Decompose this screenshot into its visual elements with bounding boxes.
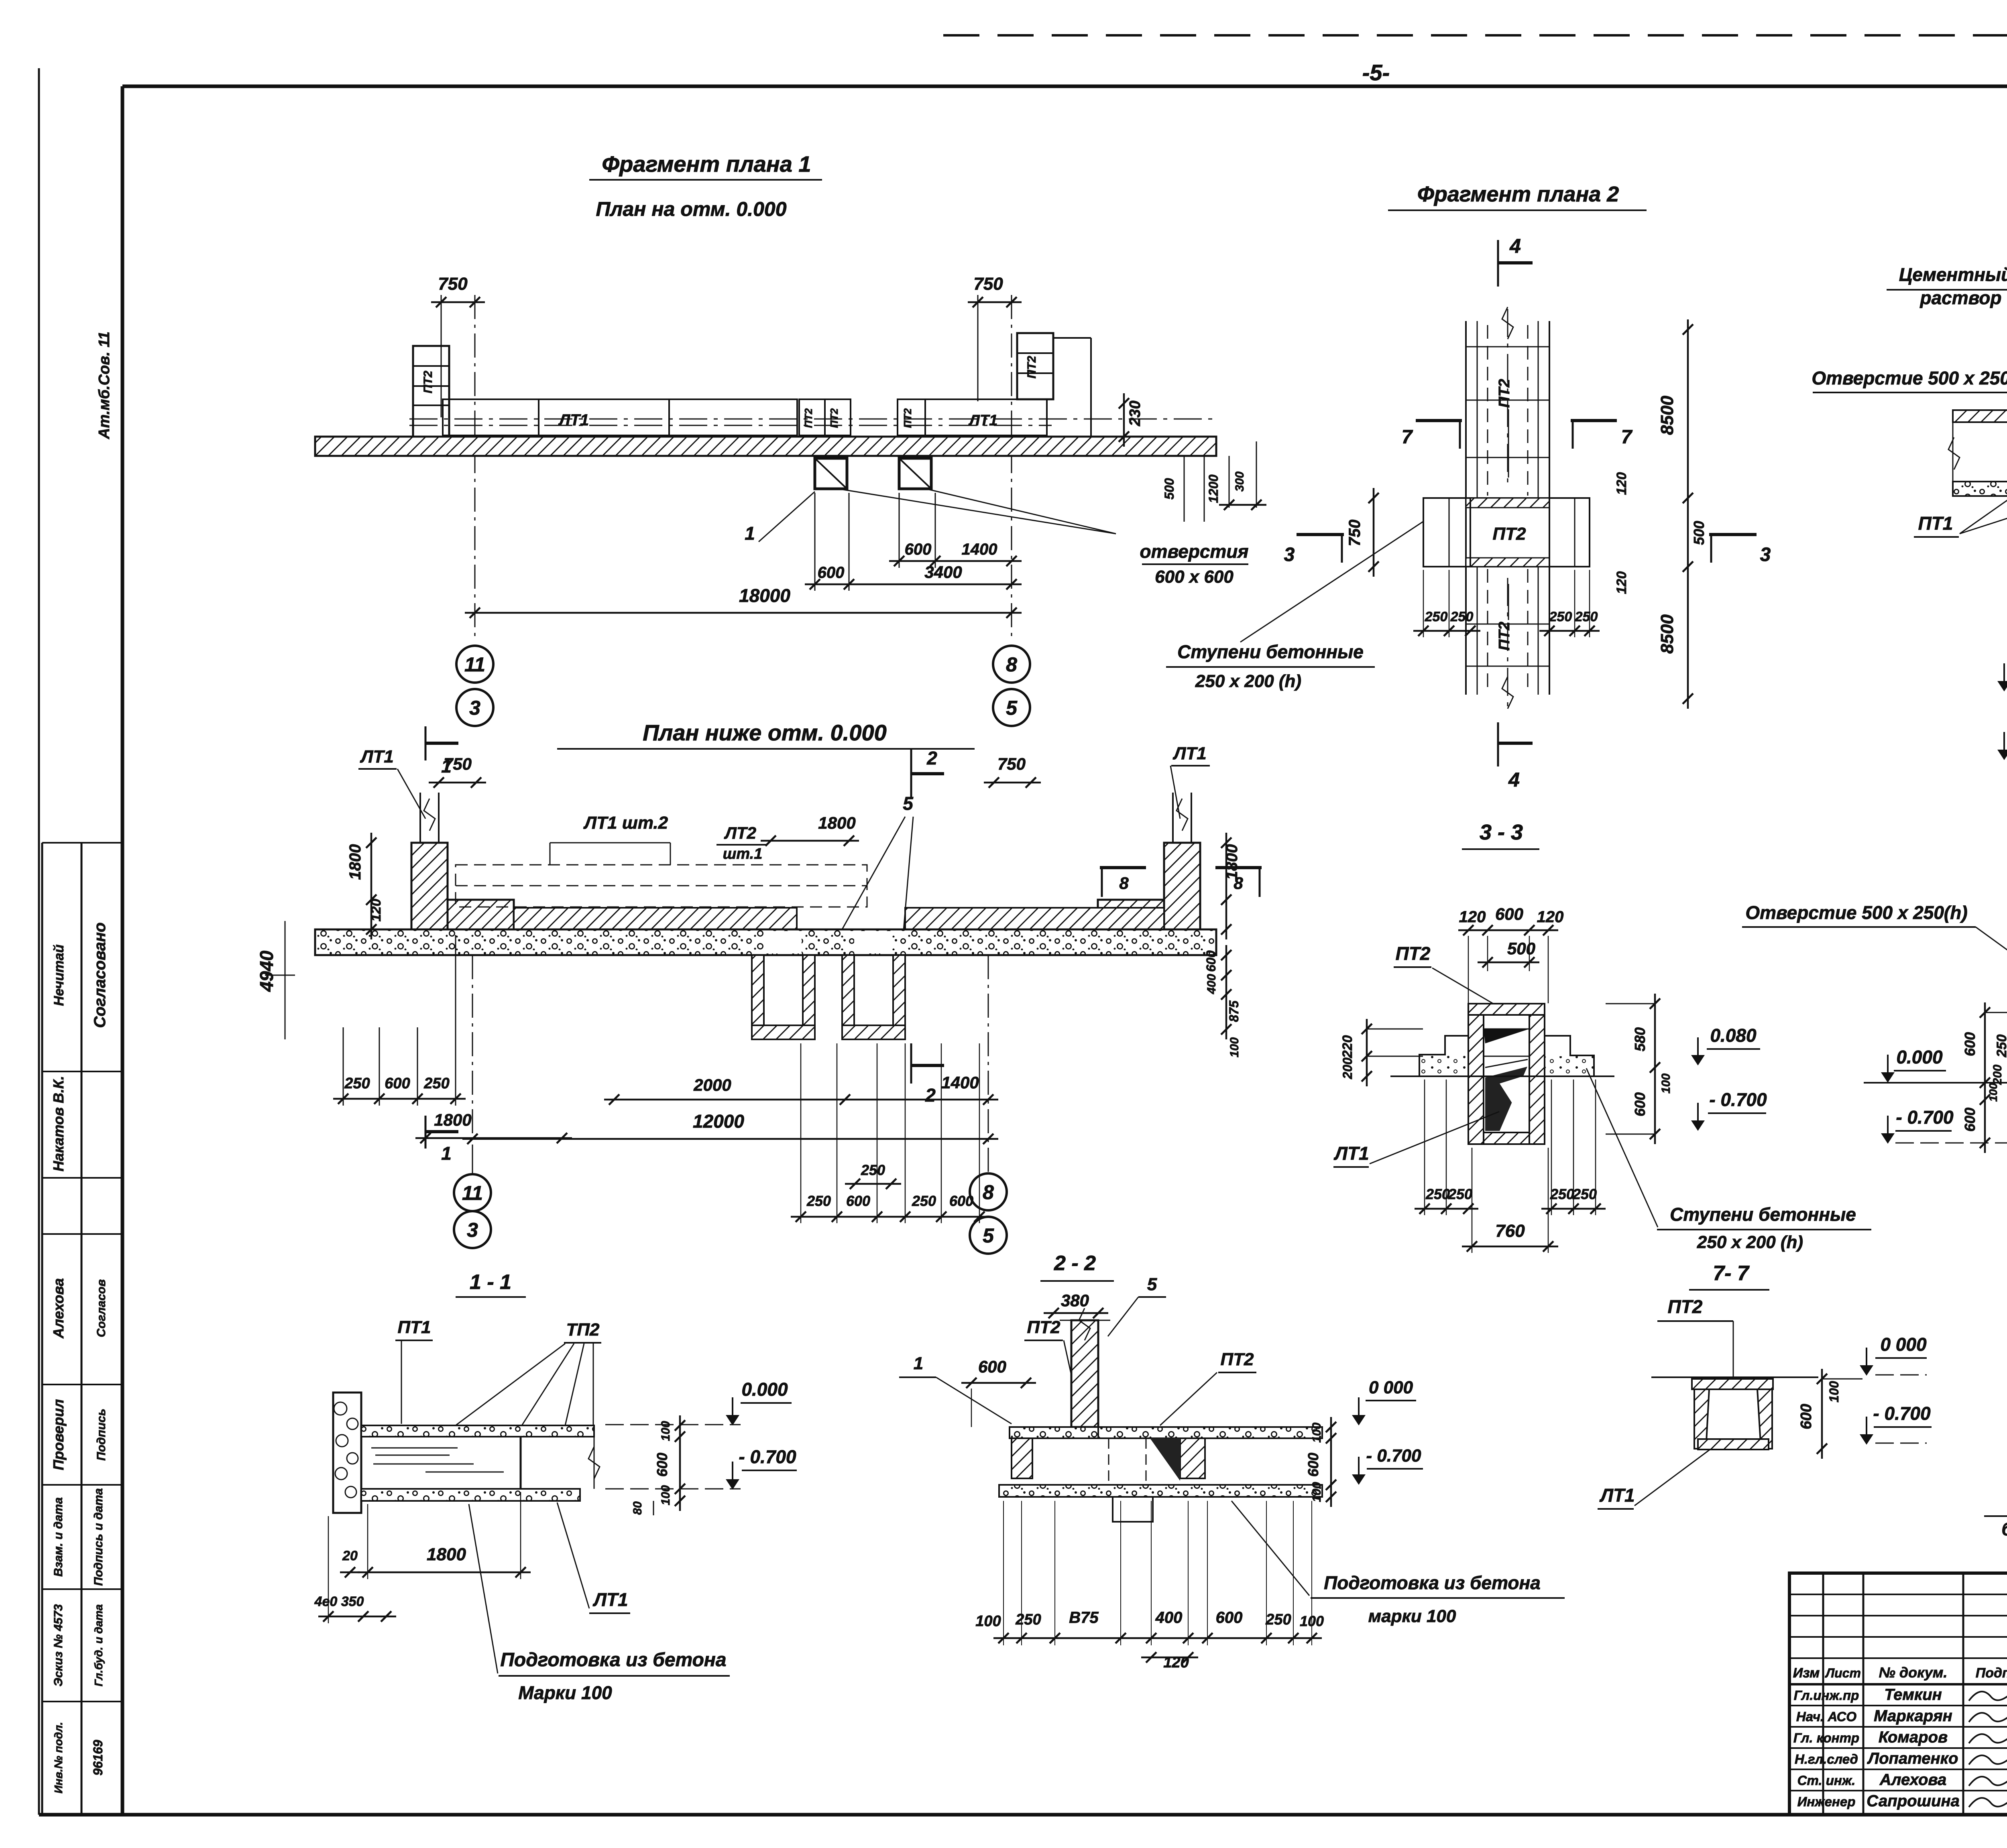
svg-text:Инв.№ подл.: Инв.№ подл. bbox=[52, 1722, 65, 1793]
svg-text:120: 120 bbox=[1537, 908, 1564, 926]
svg-text:ЛТ1: ЛТ1 bbox=[558, 411, 589, 429]
svg-text:600: 600 bbox=[1305, 1453, 1321, 1477]
svg-text:100: 100 bbox=[1228, 1037, 1241, 1057]
long panel LT1 bbox=[443, 399, 797, 435]
svg-text:Отверстие 500 х 250(h): Отверстие 500 х 250(h) bbox=[1812, 368, 2007, 388]
svg-text:Сапрошина: Сапрошина bbox=[1867, 1792, 1960, 1810]
dashed panel rect above band bbox=[456, 865, 867, 907]
right wall L-shape bbox=[1164, 843, 1200, 929]
right dim line 8500/500 bbox=[1687, 319, 1689, 709]
inner frame top bbox=[122, 85, 2007, 88]
svg-text:ПТ1: ПТ1 bbox=[1918, 513, 1953, 534]
svg-text:250: 250 bbox=[1550, 1186, 1574, 1202]
svg-text:220: 220 bbox=[1340, 1035, 1355, 1059]
title block left table verticals bbox=[1822, 1573, 1824, 1815]
svg-text:120: 120 bbox=[1459, 908, 1486, 926]
slab body bbox=[1953, 481, 2007, 482]
svg-text:ТП2: ТП2 bbox=[566, 1320, 600, 1340]
svg-text:0 000: 0 000 bbox=[1369, 1378, 1413, 1397]
svg-text:ЛТ1: ЛТ1 bbox=[1599, 1485, 1635, 1506]
box bottom cap bbox=[1484, 1132, 1529, 1144]
svg-text:250: 250 bbox=[1572, 1186, 1597, 1202]
sheet outer cut line top (dashed) bbox=[943, 34, 2007, 37]
right panel LT1 bbox=[925, 399, 1047, 435]
sheet outer cut line bottom bbox=[39, 1813, 2007, 1817]
svg-text:250: 250 bbox=[1015, 1611, 1041, 1628]
section mark 8 left bbox=[1100, 866, 1146, 869]
left wall L-shape bbox=[411, 843, 448, 929]
trough right wall bbox=[1757, 1389, 1772, 1449]
svg-text:марки 100: марки 100 bbox=[1368, 1606, 1456, 1626]
svg-text:600: 600 bbox=[818, 564, 845, 581]
right vert dims (2-2) bbox=[1330, 1417, 1332, 1507]
svg-text:18000: 18000 bbox=[739, 585, 790, 606]
center band PT2 bbox=[1423, 497, 1590, 499]
svg-text:8: 8 bbox=[983, 1181, 994, 1204]
svg-text:Отверстие 500 х 250(h): Отверстие 500 х 250(h) bbox=[1745, 902, 1967, 923]
svg-text:11: 11 bbox=[462, 1182, 483, 1204]
svg-text:1: 1 bbox=[745, 523, 755, 544]
svg-text:Накатов В.К.: Накатов В.К. bbox=[50, 1076, 67, 1171]
svg-text:Проверил: Проверил bbox=[50, 1399, 67, 1470]
svg-text:2: 2 bbox=[925, 1085, 936, 1106]
svg-text:0 000: 0 000 bbox=[1880, 1334, 1927, 1355]
svg-text:500: 500 bbox=[1691, 521, 1707, 545]
svg-text:500: 500 bbox=[1507, 939, 1535, 958]
svg-text:600: 600 bbox=[846, 1193, 870, 1209]
svg-text:4е0 350: 4е0 350 bbox=[314, 1594, 364, 1609]
svg-text:Алехова: Алехова bbox=[1879, 1771, 1947, 1789]
svg-text:380: 380 bbox=[1061, 1291, 1089, 1310]
ground line (7-7) bbox=[1651, 1376, 1818, 1378]
center dash axis vertical bbox=[1507, 309, 1508, 488]
svg-text:3 - 3: 3 - 3 bbox=[1480, 820, 1523, 844]
svg-text:шт.1: шт.1 bbox=[723, 846, 763, 862]
right step block bbox=[1545, 1036, 1594, 1076]
svg-text:- 0.700: - 0.700 bbox=[1896, 1107, 1954, 1128]
section mark 2 bottom bbox=[910, 1043, 912, 1084]
svg-text:5: 5 bbox=[1006, 697, 1018, 719]
left margin approval box bbox=[42, 842, 122, 844]
title block revision rows bbox=[1789, 1594, 2007, 1595]
svg-text:600 х 600: 600 х 600 bbox=[1155, 567, 1234, 587]
box left wall bbox=[1468, 1015, 1484, 1144]
section mark 4 bottom bbox=[1497, 722, 1499, 766]
right edge small dims bbox=[1184, 456, 1185, 522]
svg-text:Фрагмент плана 1: Фрагмент плана 1 bbox=[602, 151, 811, 177]
svg-text:Подготовка из бетона: Подготовка из бетона bbox=[1324, 1572, 1541, 1593]
right flank rect bbox=[1549, 498, 1590, 567]
svg-text:200: 200 bbox=[1991, 1065, 2004, 1085]
inner frame left bbox=[121, 86, 124, 1815]
svg-text:7- 7: 7- 7 bbox=[1713, 1262, 1750, 1285]
slab top hatch strip bbox=[1953, 410, 2007, 422]
slab bottom strip (2-2) bbox=[999, 1485, 1322, 1497]
svg-text:600: 600 bbox=[905, 541, 932, 558]
svg-text:600: 600 bbox=[1962, 1032, 1978, 1056]
svg-text:100: 100 bbox=[1827, 1381, 1841, 1403]
trench vertical walls bbox=[1465, 321, 1467, 695]
svg-text:3400: 3400 bbox=[924, 563, 962, 581]
svg-text:ПТ2: ПТ2 bbox=[1221, 1350, 1254, 1369]
svg-text:500: 500 bbox=[1162, 478, 1177, 500]
left rubble wall (1-1) bbox=[333, 1393, 361, 1513]
svg-text:4: 4 bbox=[1509, 235, 1521, 257]
svg-text:250: 250 bbox=[1994, 1035, 2007, 1058]
svg-text:80: 80 bbox=[631, 1501, 644, 1515]
svg-text:ЛТ1: ЛТ1 bbox=[968, 412, 997, 429]
left stub (2-2) bbox=[1012, 1438, 1032, 1478]
section mark 4 top bbox=[1497, 240, 1499, 287]
column above (2-2) bbox=[1071, 1320, 1098, 1427]
slab bottom stipple (1-1) bbox=[361, 1489, 580, 1501]
svg-text:Эскиз № 4573: Эскиз № 4573 bbox=[52, 1604, 65, 1686]
section mark 3 far left bbox=[1297, 533, 1344, 536]
svg-text:750: 750 bbox=[997, 754, 1026, 773]
svg-text:ЛТ1: ЛТ1 bbox=[1172, 744, 1207, 763]
dark wedge right of column (2-2) bbox=[1150, 1438, 1180, 1481]
svg-text:750: 750 bbox=[438, 274, 468, 294]
slab body dashed column (2-2) bbox=[1108, 1438, 1109, 1485]
svg-text:8500: 8500 bbox=[1657, 614, 1677, 654]
dims right (7-7) bbox=[1821, 1369, 1823, 1459]
svg-text:1 - 1: 1 - 1 bbox=[470, 1271, 511, 1294]
svg-text:ПТ2: ПТ2 bbox=[1496, 622, 1513, 651]
svg-text:3: 3 bbox=[469, 697, 480, 719]
svg-text:бетона марки 100: бетона марки 100 bbox=[2001, 1519, 2007, 1539]
svg-text:ЛТ1: ЛТ1 bbox=[360, 747, 394, 766]
svg-text:Маркарян: Маркарян bbox=[1874, 1707, 1952, 1725]
name rows bbox=[1789, 1705, 2007, 1706]
pit below (2-2) bbox=[1113, 1497, 1153, 1522]
svg-text:11: 11 bbox=[464, 653, 485, 676]
svg-text:120: 120 bbox=[1614, 571, 1629, 594]
svg-text:Гл.инж.пр: Гл.инж.пр bbox=[1794, 1688, 1859, 1703]
svg-text:1: 1 bbox=[914, 1354, 923, 1373]
svg-text:250 х 200 (h): 250 х 200 (h) bbox=[1697, 1232, 1803, 1252]
left flank rect bbox=[1423, 498, 1470, 567]
svg-text:Подготовка из бетона: Подготовка из бетона bbox=[500, 1649, 726, 1671]
svg-text:Взам. и дата: Взам. и дата bbox=[52, 1497, 65, 1577]
svg-text:ЛТ1: ЛТ1 bbox=[1333, 1143, 1369, 1164]
section mark 7 right bbox=[1571, 419, 1617, 422]
svg-text:600: 600 bbox=[654, 1453, 670, 1477]
svg-text:600: 600 bbox=[385, 1075, 410, 1092]
svg-text:0.000: 0.000 bbox=[1896, 1047, 1943, 1067]
svg-text:1800: 1800 bbox=[818, 813, 855, 832]
svg-text:Н.гл.след: Н.гл.след bbox=[1795, 1752, 1858, 1767]
svg-text:8: 8 bbox=[1006, 653, 1017, 676]
axis line left (11/3) bbox=[474, 295, 476, 640]
right dims bbox=[1654, 994, 1656, 1144]
box top cap bbox=[1468, 1004, 1545, 1015]
right hatch block (2-2) bbox=[1180, 1438, 1205, 1478]
svg-text:600: 600 bbox=[1962, 1108, 1978, 1132]
grid circles 8/5 (plan below) bbox=[970, 1173, 1007, 1210]
svg-text:875: 875 bbox=[1227, 1000, 1241, 1022]
svg-text:100: 100 bbox=[1310, 1423, 1323, 1443]
slab top strip (2-2) bbox=[1010, 1427, 1106, 1438]
svg-text:Лист: Лист bbox=[1825, 1666, 1861, 1680]
svg-text:20: 20 bbox=[342, 1548, 358, 1563]
svg-text:Ступени бетонные: Ступени бетонные bbox=[1177, 641, 1364, 662]
svg-text:750: 750 bbox=[1346, 520, 1364, 547]
svg-text:250: 250 bbox=[1575, 609, 1598, 624]
svg-text:- 0.700: - 0.700 bbox=[1709, 1089, 1767, 1110]
section mark 7 left bbox=[1416, 419, 1462, 422]
trough bottom strip bbox=[1698, 1439, 1769, 1450]
svg-text:250: 250 bbox=[423, 1075, 449, 1092]
svg-text:Марки 100: Марки 100 bbox=[518, 1682, 612, 1703]
slab bottom stipple strip bbox=[1953, 482, 2007, 496]
leaders to otverstiya text bbox=[843, 490, 1116, 534]
svg-text:Алехова: Алехова bbox=[50, 1278, 67, 1339]
svg-text:Подпись и дата: Подпись и дата bbox=[92, 1488, 105, 1586]
svg-text:230: 230 bbox=[1127, 401, 1144, 426]
svg-text:100: 100 bbox=[659, 1421, 672, 1441]
svg-text:- 0.700: - 0.700 bbox=[739, 1446, 796, 1467]
svg-text:Нач. АСО: Нач. АСО bbox=[1796, 1709, 1857, 1724]
svg-text:ПТ2: ПТ2 bbox=[1025, 356, 1038, 378]
svg-text:100: 100 bbox=[659, 1485, 672, 1505]
ground line bbox=[1390, 1075, 1614, 1077]
inner window with wedge bbox=[1484, 1029, 1529, 1056]
svg-text:Гл. контр: Гл. контр bbox=[1793, 1730, 1859, 1745]
svg-text:Ступени бетонные: Ступени бетонные bbox=[1670, 1204, 1856, 1225]
svg-text:ЛТ1 шт.2: ЛТ1 шт.2 bbox=[583, 813, 668, 833]
svg-text:3: 3 bbox=[1760, 544, 1771, 565]
wall strip in plan (hatched) bbox=[315, 437, 1216, 456]
svg-text:250: 250 bbox=[1450, 609, 1474, 624]
svg-text:580: 580 bbox=[1632, 1027, 1648, 1051]
svg-text:-5-: -5- bbox=[1362, 60, 1390, 85]
svg-text:ПТ2: ПТ2 bbox=[1668, 1296, 1703, 1317]
svg-text:100: 100 bbox=[1659, 1073, 1673, 1094]
left margin bottom stamp bbox=[42, 1588, 122, 1590]
svg-text:200: 200 bbox=[1340, 1057, 1355, 1080]
svg-text:ПТ2: ПТ2 bbox=[421, 370, 435, 393]
svg-text:ПТ2: ПТ2 bbox=[902, 408, 914, 428]
svg-text:760: 760 bbox=[1495, 1221, 1525, 1241]
svg-text:ЛТ2: ЛТ2 bbox=[724, 823, 756, 842]
level lines (6-6) bbox=[1864, 1082, 2007, 1084]
svg-text:ПТ2: ПТ2 bbox=[1027, 1317, 1061, 1337]
svg-text:600: 600 bbox=[1798, 1404, 1815, 1429]
right small PT2 box bbox=[898, 399, 925, 435]
svg-text:4: 4 bbox=[1508, 768, 1520, 791]
svg-text:2000: 2000 bbox=[693, 1075, 731, 1094]
svg-text:600: 600 bbox=[978, 1357, 1006, 1376]
grid circles 11/3 left bbox=[456, 646, 493, 683]
svg-text:250: 250 bbox=[806, 1193, 831, 1209]
svg-text:1400: 1400 bbox=[941, 1073, 979, 1092]
svg-text:1200: 1200 bbox=[1206, 474, 1221, 503]
svg-text:Инженер: Инженер bbox=[1797, 1794, 1856, 1809]
trough left wall bbox=[1694, 1389, 1709, 1449]
svg-text:1800: 1800 bbox=[427, 1545, 466, 1564]
svg-text:Нечитай: Нечитай bbox=[51, 944, 67, 1006]
svg-text:250 х 200 (h): 250 х 200 (h) bbox=[1195, 671, 1301, 691]
svg-text:Цементный: Цементный bbox=[1899, 264, 2007, 285]
svg-text:250: 250 bbox=[861, 1162, 885, 1178]
svg-text:600: 600 bbox=[1216, 1609, 1243, 1626]
svg-text:1800: 1800 bbox=[434, 1110, 471, 1129]
svg-text:1800: 1800 bbox=[346, 844, 364, 880]
svg-text:ПТ2: ПТ2 bbox=[1493, 524, 1527, 544]
right vert dims (1-1) bbox=[679, 1415, 681, 1511]
svg-text:2 - 2: 2 - 2 bbox=[1054, 1252, 1096, 1275]
box right wall bbox=[1529, 1015, 1545, 1144]
svg-text:1: 1 bbox=[441, 1143, 452, 1164]
pit openings gaps bbox=[764, 931, 802, 953]
svg-text:400: 400 bbox=[1205, 974, 1218, 994]
svg-text:ПТ2: ПТ2 bbox=[802, 408, 814, 428]
right top PT2 column bbox=[1017, 333, 1053, 399]
svg-text:8: 8 bbox=[1119, 874, 1129, 892]
svg-text:ПТ1: ПТ1 bbox=[398, 1317, 431, 1337]
svg-text:План ниже отм. 0.000: План ниже отм. 0.000 bbox=[643, 720, 887, 745]
svg-text:250: 250 bbox=[1549, 609, 1572, 624]
inner lower dark fill bbox=[1485, 1067, 1527, 1131]
svg-text:- 0.700: - 0.700 bbox=[1366, 1446, 1422, 1466]
svg-text:Изм: Изм bbox=[1793, 1665, 1820, 1681]
svg-text:750: 750 bbox=[973, 274, 1003, 294]
pit 1 U-shape bbox=[752, 955, 764, 1039]
svg-text:100: 100 bbox=[1310, 1482, 1323, 1502]
svg-text:300: 300 bbox=[1233, 472, 1246, 492]
svg-text:7: 7 bbox=[1402, 427, 1413, 448]
svg-text:100: 100 bbox=[1987, 1083, 1999, 1102]
section mark 1 bottom bbox=[425, 1116, 427, 1149]
svg-text:250: 250 bbox=[912, 1193, 936, 1209]
svg-text:400: 400 bbox=[1155, 1609, 1183, 1626]
svg-text:Гл.буд. и дата: Гл.буд. и дата bbox=[92, 1604, 105, 1687]
pit 2 U-shape bbox=[842, 955, 854, 1039]
svg-text:600: 600 bbox=[1632, 1092, 1648, 1116]
trough top strip bbox=[1692, 1379, 1773, 1389]
svg-text:Комаров: Комаров bbox=[1879, 1728, 1948, 1746]
section mark 2 top bbox=[910, 750, 912, 798]
svg-text:ПТ2: ПТ2 bbox=[1396, 943, 1431, 964]
dash-dot panel line above strip bbox=[409, 419, 1216, 420]
svg-text:ЛТ1: ЛТ1 bbox=[592, 1589, 628, 1610]
slab body (1-1) bbox=[361, 1437, 362, 1489]
section mark 1 top bbox=[425, 726, 427, 760]
svg-text:Согласов: Согласов bbox=[95, 1279, 108, 1337]
svg-text:250: 250 bbox=[1425, 609, 1448, 624]
svg-text:8500: 8500 bbox=[1657, 396, 1677, 435]
svg-text:Подп.: Подп. bbox=[1976, 1665, 2007, 1681]
svg-text:250: 250 bbox=[1448, 1186, 1472, 1202]
right break (1-1) bbox=[588, 1447, 600, 1479]
svg-text:750: 750 bbox=[444, 754, 472, 773]
svg-text:Фрагмент плана 2: Фрагмент плана 2 bbox=[1417, 182, 1619, 206]
svg-text:7: 7 bbox=[1621, 427, 1633, 448]
svg-text:5: 5 bbox=[903, 793, 914, 814]
svg-text:100: 100 bbox=[975, 1613, 1001, 1630]
svg-text:12000: 12000 bbox=[693, 1111, 744, 1132]
wall stub lines above left wall bbox=[419, 793, 421, 843]
svg-text:3: 3 bbox=[467, 1219, 478, 1241]
sheet outer cut line left bbox=[38, 68, 40, 1815]
svg-text:отверстия: отверстия bbox=[1140, 541, 1249, 562]
svg-text:4940: 4940 bbox=[256, 950, 277, 992]
svg-text:250: 250 bbox=[344, 1075, 370, 1092]
svg-text:Подпись: Подпись bbox=[95, 1409, 108, 1461]
opening squares 600x600 bbox=[815, 458, 847, 489]
svg-text:ПТ2: ПТ2 bbox=[1496, 379, 1513, 408]
svg-text:План на отм. 0.000: План на отм. 0.000 bbox=[596, 198, 786, 220]
slab top hatch strip (1-1) bbox=[361, 1425, 594, 1437]
svg-text:№ докум.: № докум. bbox=[1879, 1664, 1948, 1681]
svg-text:120: 120 bbox=[1614, 472, 1629, 495]
middle wall hatched band bbox=[514, 908, 797, 929]
svg-text:- 0.700: - 0.700 bbox=[1873, 1403, 1931, 1424]
trench rungs bbox=[1466, 346, 1549, 348]
svg-text:1400: 1400 bbox=[962, 541, 997, 558]
svg-text:Ст. инж.: Ст. инж. bbox=[1797, 1773, 1856, 1788]
svg-text:96169: 96169 bbox=[91, 1740, 105, 1775]
svg-text:Темкин: Темкин bbox=[1884, 1686, 1942, 1704]
section mark 8 right bbox=[1215, 866, 1262, 869]
title block outer bbox=[1789, 1573, 2007, 1815]
left PT2 column block bbox=[413, 346, 449, 437]
left step block bbox=[1419, 1036, 1468, 1076]
svg-text:0.000: 0.000 bbox=[741, 1379, 788, 1400]
svg-text:600: 600 bbox=[1204, 950, 1218, 972]
svg-text:Согласовано: Согласовано bbox=[91, 923, 109, 1028]
svg-text:250: 250 bbox=[1265, 1611, 1291, 1628]
svg-text:0.080: 0.080 bbox=[1710, 1025, 1757, 1046]
concrete footing strip bbox=[315, 929, 1216, 955]
svg-text:5: 5 bbox=[1147, 1275, 1157, 1294]
svg-text:600: 600 bbox=[1495, 905, 1523, 923]
svg-text:ПТ2: ПТ2 bbox=[828, 408, 840, 428]
grid circles 11/3 (plan below) bbox=[472, 1145, 473, 1174]
grid circles 8/5 right bbox=[993, 646, 1030, 683]
two narrow PT2 boxes bbox=[799, 399, 825, 435]
svg-text:3: 3 bbox=[1284, 544, 1295, 565]
svg-text:Ат.мб.Сов. 11: Ат.мб.Сов. 11 bbox=[96, 331, 113, 439]
svg-text:Лопатенко: Лопатенко bbox=[1867, 1750, 1958, 1767]
svg-text:В75: В75 bbox=[1069, 1609, 1099, 1626]
svg-text:2: 2 bbox=[926, 748, 937, 768]
section mark 3 far right bbox=[1709, 533, 1757, 536]
axis line right (8/5) bbox=[1011, 295, 1012, 640]
svg-text:5: 5 bbox=[983, 1224, 994, 1247]
